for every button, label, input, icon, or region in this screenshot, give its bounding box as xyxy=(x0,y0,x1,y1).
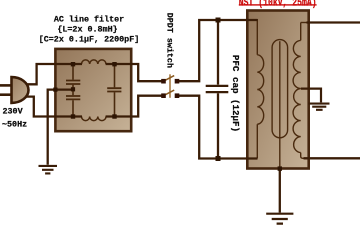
svg-text:[C=2x 0.1µF, 2200pF]: [C=2x 0.1µF, 2200pF] xyxy=(39,35,140,45)
node: cap midpoint junction xyxy=(71,87,75,91)
node: filter top left junction xyxy=(71,62,75,66)
wire secondary top exit (inside box) xyxy=(301,22,308,24)
svg-text:{L=2x 0.8mH}: {L=2x 0.8mH} xyxy=(57,25,117,35)
transformer box shaded body xyxy=(247,11,308,169)
node: filter bottom left junction xyxy=(71,114,75,118)
wire secondary tap to right ground xyxy=(301,89,321,103)
wire switch pole2 output to transformer primary bottom xyxy=(176,96,258,159)
wire PFC cap rail xyxy=(217,20,219,159)
wire switch pole1 output to transformer primary top xyxy=(176,20,258,81)
wire primary baseline xyxy=(256,19,258,158)
svg-text:DPDT switch: DPDT switch xyxy=(164,13,174,68)
switch contact pole1 input xyxy=(161,79,166,84)
switch mechanical link xyxy=(169,74,171,98)
wire live: filter to switch pole 1 xyxy=(106,64,162,81)
inductor L2 (filter bottom choke) xyxy=(82,117,107,121)
switch contact pole2 input xyxy=(161,93,166,98)
svg-text:PFC cap (12µF): PFC cap (12µF) xyxy=(230,55,241,132)
svg-text:AC line filter: AC line filter xyxy=(54,15,124,25)
node: box edge crossing junction xyxy=(53,88,57,92)
plug prong lower xyxy=(0,93,12,96)
wire secondary center tap (inside box) xyxy=(301,88,308,90)
wire live: plug to filter top xyxy=(27,64,83,84)
capacitor PFC plates xyxy=(206,86,229,92)
capacitor C2 (lower Y-cap plates) xyxy=(66,96,80,99)
ground (core earth) xyxy=(266,214,293,224)
node: PFC rail bottom junction xyxy=(216,156,221,161)
filter box shaded body xyxy=(55,49,131,131)
switch contact pole1 output xyxy=(175,79,180,84)
wire HV output bottom xyxy=(304,157,360,159)
node: PFC rail top junction xyxy=(216,18,221,23)
switch lever pole 1 xyxy=(164,76,175,82)
plug body xyxy=(12,77,29,103)
node: core ground at box edge xyxy=(278,166,282,170)
capacitor C3 (X-cap plates) xyxy=(107,88,121,91)
node: filter bottom right junction xyxy=(112,114,116,118)
plug prong upper xyxy=(0,84,12,87)
ground (secondary center tap) xyxy=(309,104,330,110)
capacitor C1 (upper Y-cap plates) xyxy=(66,81,80,85)
transformer core (stadium) xyxy=(272,40,288,138)
wire core ground line xyxy=(279,41,281,169)
wire neutral: plug to filter bottom xyxy=(27,97,83,117)
switch contact pole2 output xyxy=(175,93,180,98)
wire neutral: filter to switch pole 2 xyxy=(106,96,162,117)
wire cap column C3 xyxy=(114,63,116,118)
switch lever pole 2 xyxy=(164,90,175,96)
transformer primary coil xyxy=(257,55,263,124)
wire HV output top xyxy=(307,21,360,23)
node: filter top right junction xyxy=(112,62,116,66)
wire ground stub from cap midpoint xyxy=(48,90,72,165)
inductor L1 (filter top choke) xyxy=(82,60,107,64)
wire cap column C1/C2 xyxy=(72,63,74,118)
svg-text:~50Hz: ~50Hz xyxy=(2,119,27,129)
transformer secondary coil xyxy=(293,40,301,152)
svg-text:230V: 230V xyxy=(3,107,24,117)
wire core to bottom ground xyxy=(279,169,281,213)
wire secondary baseline top/bottom xyxy=(301,23,307,159)
ground (filter earth) xyxy=(39,166,58,174)
